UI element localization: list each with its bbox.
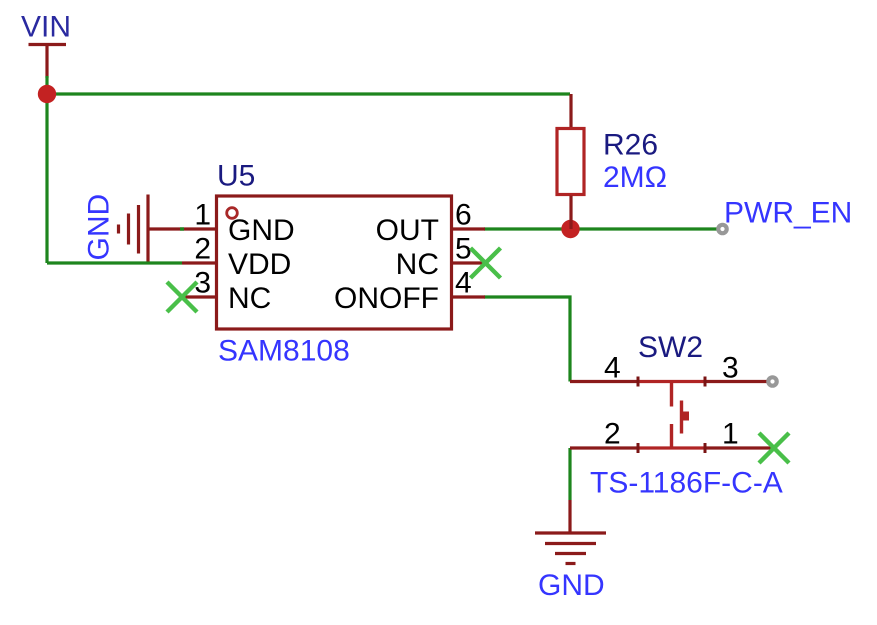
power flag VIN pin stem <box>45 45 48 79</box>
IC U5 body <box>217 196 452 329</box>
pin 2 stub (VDD) <box>182 261 216 264</box>
wire left vertical down to VDD row <box>45 94 48 263</box>
wire VIN to junction <box>45 76 48 94</box>
switch SW2 top body segment <box>638 380 705 383</box>
wire ONOFF to switch <box>484 297 570 382</box>
pin end dot <box>180 227 184 230</box>
svg-text:OUT: OUT <box>376 214 439 247</box>
svg-text:1: 1 <box>194 199 211 232</box>
svg-text:4: 4 <box>604 352 621 385</box>
junction dot at VIN <box>38 85 56 103</box>
svg-text:SAM8108: SAM8108 <box>218 335 350 368</box>
open pin circle on switch pin 3 <box>768 377 776 385</box>
switch SW2 pin 3 wire <box>705 380 768 383</box>
no-connect X on pin 3 <box>167 282 197 312</box>
svg-text:NC: NC <box>396 248 439 281</box>
no-connect X on pin 5 <box>471 248 501 278</box>
no-connect X on switch pin 1 <box>759 433 789 463</box>
switch pin origin tick (pin 4) <box>637 377 640 387</box>
switch SW2 bottom body segment <box>638 446 705 449</box>
ground symbol bottom <box>535 533 606 564</box>
switch pin origin tick (pin 3) <box>704 377 707 387</box>
svg-text:GND: GND <box>538 569 605 602</box>
svg-text:SW2: SW2 <box>638 331 703 364</box>
svg-text:GND: GND <box>83 194 116 261</box>
open pin circle PWR_EN <box>718 225 726 233</box>
resistor R26 body <box>557 129 584 195</box>
wire OUT to PWR_EN <box>484 227 719 230</box>
switch pin origin tick (pin 2) <box>637 443 640 453</box>
svg-text:PWR_EN: PWR_EN <box>724 197 852 230</box>
svg-text:VIN: VIN <box>21 11 71 44</box>
switch SW2 pin 2 wire <box>570 446 638 449</box>
power flag VIN bar <box>29 43 67 46</box>
svg-text:5: 5 <box>455 233 472 266</box>
svg-text:R26: R26 <box>603 129 658 162</box>
switch button bar <box>680 401 683 434</box>
svg-text:NC: NC <box>228 282 271 315</box>
svg-text:1: 1 <box>722 418 739 451</box>
svg-text:3: 3 <box>722 352 739 385</box>
resistor R26 top lead <box>569 94 572 128</box>
svg-text:U5: U5 <box>217 160 255 193</box>
wire top horizontal VIN to R26 <box>47 92 570 95</box>
svg-text:ONOFF: ONOFF <box>334 282 439 315</box>
pin 3 stub (NC) <box>182 295 216 298</box>
IC U5 pin-1 indicator circle <box>227 208 238 219</box>
switch SW2 pin 1 wire <box>705 446 772 449</box>
svg-text:4: 4 <box>455 267 472 300</box>
ground symbol left <box>119 195 149 262</box>
switch contact lower <box>670 424 673 448</box>
switch button knob <box>682 412 690 421</box>
switch SW2 pin 4 wire <box>570 380 638 383</box>
pin 5 stub (NC) <box>452 261 485 264</box>
pin 6 stub (OUT) <box>452 227 485 230</box>
svg-text:6: 6 <box>455 199 472 232</box>
wire to VDD pin <box>47 261 182 264</box>
ground symbol bottom pin <box>568 500 571 533</box>
junction dot at R26/OUT <box>561 220 579 238</box>
resistor R26 bottom lead <box>569 196 572 230</box>
svg-text:VDD: VDD <box>228 248 291 281</box>
svg-text:2MΩ: 2MΩ <box>603 161 667 194</box>
switch contact upper <box>670 382 673 407</box>
svg-text:GND: GND <box>228 214 295 247</box>
ground left pin wire to U5 pin 1 <box>148 227 216 230</box>
svg-text:2: 2 <box>604 418 621 451</box>
svg-text:2: 2 <box>194 233 211 266</box>
pin 4 stub (ONOFF) <box>452 295 485 298</box>
svg-text:TS-1186F-C-A: TS-1186F-C-A <box>590 467 783 500</box>
wire switch pin2 to GND <box>568 448 571 500</box>
switch pin origin tick (pin 1) <box>704 443 707 453</box>
